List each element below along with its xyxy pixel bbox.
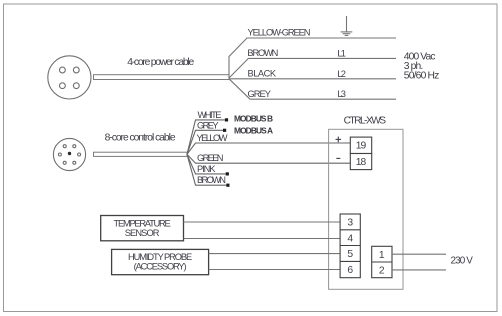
svg-text:YELLOW: YELLOW [197, 133, 228, 143]
svg-text:BROWN: BROWN [197, 175, 226, 185]
label: mains rating 400 Vac 3 ph. 50/60 Hz [404, 51, 440, 81]
svg-text:50/60 Hz: 50/60 Hz [404, 71, 440, 82]
svg-text:L3: L3 [337, 89, 346, 99]
svg-text:L1: L1 [337, 48, 346, 58]
svg-text:MODBUS B: MODBUS B [234, 113, 273, 123]
wire BROWN (control) [187, 154, 226, 185]
terminal 19 [350, 137, 371, 153]
connector J2 center pin [68, 152, 71, 155]
svg-text:6: 6 [347, 265, 353, 276]
temperature sensor box [101, 216, 184, 241]
terminal dot BROWN [226, 184, 229, 187]
wire PINK [187, 154, 226, 174]
terminal block 1-2 [372, 246, 392, 277]
svg-text:CTRL-XWS: CTRL-XWS [344, 115, 387, 126]
wire BLACK to L2 [229, 78, 396, 80]
svg-text:GREY: GREY [197, 120, 219, 130]
wire humidity probe to terminal 6 [209, 269, 341, 271]
svg-text:BROWN: BROWN [247, 48, 278, 58]
svg-text:19: 19 [356, 141, 367, 152]
svg-text:L2: L2 [337, 69, 346, 79]
svg-text:4-core power cable: 4-core power cable [127, 57, 194, 68]
svg-text:2: 2 [379, 266, 385, 277]
wire WHITE (Modbus B) [187, 120, 225, 154]
8-core control cable [94, 152, 188, 156]
svg-text:MODBUS A: MODBUS A [234, 125, 273, 135]
svg-text:SENSOR: SENSOR [125, 228, 160, 238]
ground symbol [341, 16, 353, 35]
terminal block 3-6 [340, 214, 360, 278]
svg-text:GREEN: GREEN [197, 153, 224, 163]
wire GREY to L3 [229, 79, 396, 99]
svg-text:WHITE: WHITE [198, 110, 222, 120]
wire temp sensor to terminal 3 [184, 221, 341, 223]
terminal 18 [350, 154, 371, 170]
svg-text:18: 18 [356, 157, 367, 168]
svg-text:GREY: GREY [248, 89, 272, 99]
wire YELLOW to terminal 19 [187, 143, 350, 154]
svg-text:4: 4 [347, 233, 353, 244]
humidity probe box [112, 249, 209, 274]
wire temp sensor to terminal 4 [184, 238, 341, 240]
svg-text:5: 5 [347, 249, 353, 260]
controller U1 CTRL-XWS box [329, 129, 403, 289]
svg-text:PINK: PINK [197, 164, 216, 174]
svg-text:(ACCESSORY): (ACCESSORY) [134, 261, 187, 271]
minus sign [336, 157, 340, 159]
4-core power cable [94, 75, 230, 80]
svg-text:HUMIDTY PROBE: HUMIDTY PROBE [128, 252, 192, 262]
svg-text:1: 1 [379, 250, 385, 261]
wire terminal 2 to 230V [392, 269, 446, 271]
wire humidity probe to terminal 5 [209, 253, 341, 255]
svg-text:230 V: 230 V [451, 256, 474, 267]
terminal dot WHITE [225, 118, 228, 121]
svg-text:YELLOW-GREEN: YELLOW-GREEN [248, 28, 311, 38]
wire BROWN to L1 [229, 58, 396, 78]
wire GREY (Modbus A) [187, 130, 223, 154]
plus sign [336, 137, 342, 143]
wire GREEN to terminal 18 [187, 154, 350, 163]
connector J1 4-core plug [48, 56, 91, 99]
svg-text:3: 3 [347, 218, 353, 229]
svg-text:8-core control cable: 8-core control cable [105, 133, 176, 144]
terminal dot PINK [226, 172, 229, 175]
wire terminal 1 to 230V [392, 253, 446, 255]
wire YELLOW-GREEN [229, 38, 396, 78]
connector J2 8-core plug [53, 138, 85, 170]
terminal dot GREY [223, 129, 226, 132]
svg-text:BLACK: BLACK [248, 69, 277, 79]
